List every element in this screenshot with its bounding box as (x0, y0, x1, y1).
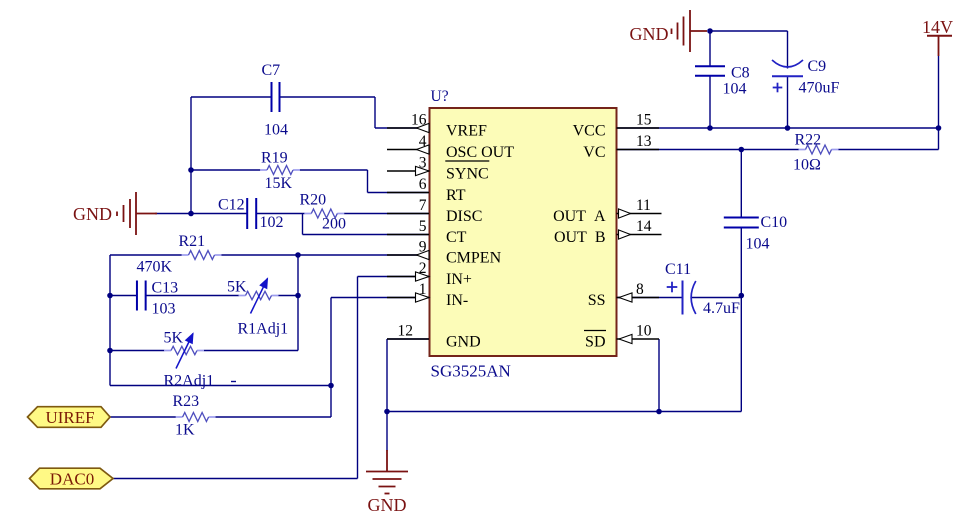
svg-text:R20: R20 (300, 192, 327, 209)
svg-text:R21: R21 (179, 233, 206, 250)
svg-text:15K: 15K (265, 175, 293, 192)
svg-text:SYNC: SYNC (446, 166, 489, 183)
svg-text:R22: R22 (795, 132, 822, 149)
svg-text:R19: R19 (261, 150, 288, 167)
svg-text:102: 102 (260, 214, 284, 231)
svg-text:4: 4 (419, 133, 427, 150)
svg-text:U?: U? (431, 88, 449, 105)
svg-text:8: 8 (636, 281, 644, 298)
svg-text:1: 1 (419, 281, 427, 298)
svg-text:GND: GND (73, 204, 112, 224)
svg-text:11: 11 (636, 197, 651, 214)
svg-text:3: 3 (419, 155, 427, 172)
svg-text:VREF: VREF (446, 123, 487, 140)
svg-text:VC: VC (583, 144, 605, 161)
svg-text:14: 14 (636, 218, 652, 235)
svg-text:GND: GND (446, 334, 481, 351)
svg-text:CT: CT (446, 229, 467, 246)
svg-text:200: 200 (322, 216, 346, 233)
svg-text:C8: C8 (731, 65, 750, 82)
svg-text:2: 2 (419, 260, 427, 277)
svg-text:13: 13 (636, 133, 652, 150)
svg-text:5K: 5K (227, 279, 247, 296)
svg-text:R2Adj1: R2Adj1 (164, 373, 215, 390)
svg-text:DAC0: DAC0 (50, 470, 94, 489)
svg-text:GND: GND (368, 495, 407, 515)
svg-text:10Ω: 10Ω (793, 157, 821, 174)
svg-text:OUT A: OUT A (553, 208, 606, 225)
svg-text:9: 9 (419, 239, 427, 256)
svg-text:5: 5 (419, 218, 427, 235)
svg-text:SD: SD (585, 334, 605, 351)
svg-text:C11: C11 (665, 261, 691, 278)
svg-text:VCC: VCC (573, 123, 606, 140)
svg-text:470K: 470K (137, 259, 173, 276)
svg-text:104: 104 (723, 81, 747, 98)
svg-text:5K: 5K (164, 330, 184, 347)
svg-text:470uF: 470uF (799, 80, 840, 97)
svg-text:104: 104 (746, 236, 770, 253)
svg-text:OUT B: OUT B (554, 229, 606, 246)
svg-text:104: 104 (264, 122, 288, 139)
svg-text:RT: RT (446, 187, 466, 204)
svg-text:SS: SS (588, 292, 606, 309)
svg-text:UIREF: UIREF (45, 408, 94, 427)
svg-text:103: 103 (152, 301, 176, 318)
svg-text:SG3525AN: SG3525AN (431, 362, 511, 381)
svg-text:IN+: IN+ (446, 271, 472, 288)
svg-text:15: 15 (636, 112, 652, 129)
svg-text:R1Adj1: R1Adj1 (238, 321, 289, 338)
svg-text:10: 10 (636, 323, 652, 340)
svg-text:R23: R23 (173, 393, 200, 410)
svg-text:7: 7 (419, 197, 427, 214)
svg-text:14V: 14V (922, 17, 953, 37)
svg-text:IN-: IN- (446, 292, 468, 309)
svg-text:C10: C10 (761, 214, 788, 231)
svg-text:OSC OUT: OSC OUT (446, 144, 514, 161)
svg-text:C9: C9 (808, 58, 827, 75)
svg-text:C7: C7 (262, 62, 281, 79)
svg-text:C13: C13 (152, 280, 179, 297)
svg-text:GND: GND (630, 24, 669, 44)
svg-text:1K: 1K (175, 422, 195, 439)
svg-text:DISC: DISC (446, 208, 482, 225)
svg-text:4.7uF: 4.7uF (703, 300, 740, 317)
svg-text:6: 6 (419, 176, 427, 193)
svg-text:12: 12 (398, 323, 414, 340)
svg-text:16: 16 (411, 112, 427, 129)
svg-text:C12: C12 (218, 197, 245, 214)
svg-text:CMPEN: CMPEN (446, 250, 502, 267)
